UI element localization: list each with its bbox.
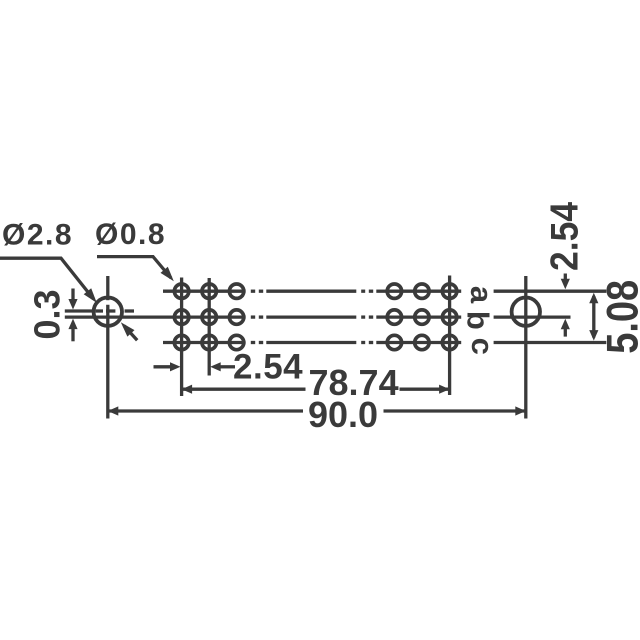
arrowhead 0.3 down [68,299,77,310]
dim 0.3 upper arrow tail [71,289,74,301]
svg-text:b: b [461,311,496,330]
dim 2.54 left arrow tail [154,365,172,368]
dim 2.54 right arrow tail [220,365,236,368]
svg-text:5.08: 5.08 [598,280,640,354]
leader Ø2.8 [0,258,94,299]
wire row c break (dash-dot) [251,341,386,344]
arrowhead leader Ø0.8 [161,267,174,282]
wire row c line (right group + right end) [386,341,607,344]
contact holes grid (0.8mm), rows a,b,c [174,284,456,350]
mounting hole left (2.8mm) [94,298,122,326]
wire row b line (right group + to dim) [386,315,571,318]
svg-text:Ø0.8: Ø0.8 [95,218,166,251]
leader pointing at left hole lower-right edge [124,326,137,340]
arrowhead 78.74 left [182,385,193,394]
arrowhead 5.08 up [589,293,598,304]
arrowhead 90.0 left [108,406,119,415]
centerline right hole (vertical) [524,276,527,419]
wire row a line (right group + right end) [386,290,607,293]
wire row a line (left group) [163,290,246,293]
mounting hole right (2.8mm) [512,298,540,326]
extension line col1 left group [180,278,183,397]
arrowhead 5.08 down [589,330,598,341]
extension line col3 right group [448,276,451,396]
centerline left hole (dash-dot horizontal) [65,309,134,312]
wire row b break (dash-dot) [251,315,386,318]
svg-text:2.54: 2.54 [233,348,303,387]
wire row c line (left group) [163,341,246,344]
arrowhead 2.54R down [561,279,570,290]
dim line 78.74 [182,388,450,391]
extension line col2 left group [208,278,211,376]
arrowhead 0.3 up [68,319,77,330]
svg-text:2.54: 2.54 [542,202,586,271]
arrowhead leader left hole [121,322,135,336]
wire row a break (dash-dot) [251,290,386,293]
leader Ø0.8 [97,257,171,278]
dim line 90.0 [108,409,526,412]
dim line 5.08 [592,296,595,338]
arrowhead 90.0 right [515,406,526,415]
arrowhead 2.54R up [561,319,570,330]
dim 2.54R lower tail [564,328,567,337]
dim 2.54R upper tail [564,274,567,282]
wire row b line (left, through mounting hole) [65,315,246,318]
svg-text:Ø2.8: Ø2.8 [2,219,73,252]
arrowhead 78.74 right [439,385,450,394]
svg-text:0.3: 0.3 [27,289,68,339]
svg-text:c: c [465,338,500,355]
centerline left hole (vertical) [106,276,109,419]
svg-text:90.0: 90.0 [308,394,378,435]
dim 0.3 lower arrow tail [71,329,74,341]
arrowhead leader Ø2.8 [84,288,97,303]
arrowhead 2.54 left-pointing [210,362,221,371]
arrowhead 2.54 right-pointing [170,362,181,371]
svg-text:a: a [464,286,499,304]
